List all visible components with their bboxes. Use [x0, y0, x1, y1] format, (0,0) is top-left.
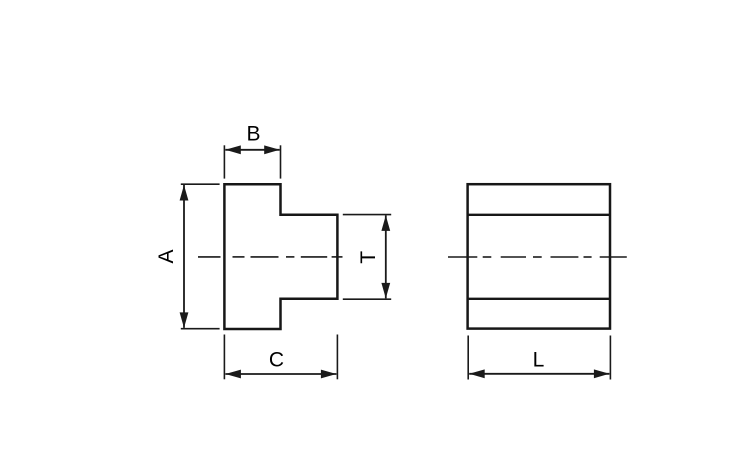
- dimension T line with arrows: [385, 215, 387, 298]
- svg-text:L: L: [533, 349, 545, 372]
- dimension L line with arrows: [469, 373, 609, 375]
- right view centerline (dash-dot): [448, 256, 627, 258]
- right view body outline: [468, 184, 610, 328]
- dimension A line with arrows: [183, 185, 185, 328]
- dimension B extension lines: [224, 145, 280, 178]
- right view upper step line: [468, 214, 610, 216]
- dimension T extension lines: [343, 215, 391, 300]
- left view centerline (dash-dot): [198, 256, 343, 258]
- svg-text:C: C: [269, 348, 284, 371]
- right view lower step line: [468, 298, 610, 300]
- svg-text:T: T: [357, 251, 380, 264]
- dimension L extension lines: [468, 336, 610, 380]
- dimension B line with arrows: [225, 149, 279, 151]
- svg-text:A: A: [155, 249, 178, 263]
- svg-text:B: B: [246, 123, 260, 146]
- dimension C extension lines: [224, 335, 337, 380]
- dimension A extension lines: [181, 184, 220, 329]
- dimension C line with arrows: [225, 373, 336, 375]
- left view stepped body outline: [224, 184, 337, 329]
